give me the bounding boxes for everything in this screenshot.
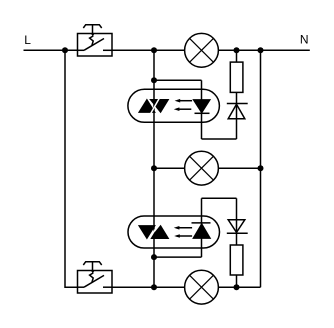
lamp E2 (middle) [185, 151, 219, 185]
E2 circle [185, 151, 219, 185]
resistor R2 [230, 245, 243, 275]
wire left rail (down and to switch S2) [65, 50, 78, 287]
optocoupler U1 (solid state relay, top) [128, 89, 219, 122]
U1 light arrow upper head [175, 99, 181, 103]
switch S1 (top pushbutton switch) [78, 25, 113, 56]
U2 light arrow lower [177, 235, 193, 237]
S2 actuator bar [83, 262, 101, 265]
S1 left fixed contact [78, 49, 85, 51]
wire top rail from S1 to lamp E1 [112, 49, 185, 51]
wire top rail from L to switch S1 [24, 49, 78, 51]
wire triac rail upper segment [153, 50, 155, 80]
wire middle row right [218, 167, 260, 169]
lamp E1 (top) [185, 33, 219, 67]
wire resistor R2 bottom lead [236, 275, 238, 287]
E2 cross stroke 1 [190, 156, 214, 180]
wire U1 LED cathode corner to diode D1 column [202, 138, 237, 140]
U2 LED triangle [193, 224, 210, 239]
U1 stadium outline [128, 89, 219, 122]
U1 LED cathode bar [195, 112, 210, 114]
wire U1 LED anode column [201, 80, 203, 139]
node junction dot middle row left [151, 165, 157, 171]
svg-text:N: N [300, 33, 309, 47]
U1 light arrow upper [177, 100, 192, 102]
optocoupler U2 (solid state relay, bottom) [128, 216, 220, 248]
S1 moving contact [84, 39, 104, 51]
diode D1 triangle [228, 104, 245, 118]
wire triac rail middle segment [153, 168, 155, 257]
S1 enclosure box [78, 34, 113, 57]
S2 right fixed contact [103, 286, 112, 288]
node junction dot top rail at resistor column [234, 47, 240, 53]
E3 cross stroke 2 [190, 275, 214, 299]
diode D1 cathode bar [227, 103, 248, 105]
U2 light arrow upper [176, 227, 192, 229]
wire U2 LED cathode to triac rail [154, 256, 202, 258]
wire diode D2 column [236, 198, 238, 245]
wire U2 LED anode column [201, 198, 203, 257]
wire right rail N column [260, 50, 262, 287]
S2 moving contact [84, 275, 104, 287]
node junction dot bottom rail at triac column [151, 284, 157, 290]
S2 trip zigzag [90, 273, 94, 283]
E2 cross stroke 2 [190, 156, 214, 180]
diode D2 triangle [228, 220, 245, 233]
U2 light arrow upper head [174, 226, 180, 230]
U1 LED triangle [193, 100, 210, 113]
resistor R1 [230, 62, 243, 92]
svg-text:L: L [24, 33, 31, 47]
U2 LED anode bar [192, 222, 211, 224]
wire bottom rail from lamp E3 to right rail [218, 286, 260, 288]
diode D2 cathode bar [227, 232, 248, 234]
U2 light arrow lower head [174, 234, 180, 238]
U1 triac gap slash [150, 98, 159, 114]
wire diode D1 column lower segment [236, 92, 238, 139]
wire U2 top link horizontal [202, 197, 237, 199]
S2 enclosure box [78, 271, 113, 294]
E1 cross stroke 1 [190, 38, 214, 62]
wire top rail from lamp E1 to N [218, 49, 309, 51]
U1 triac triangle down [150, 100, 168, 113]
U2 triac triangle up [150, 226, 168, 239]
E3 cross stroke 1 [190, 275, 214, 299]
U1 triac triangle up [139, 100, 155, 113]
lamp E3 (bottom) [185, 270, 219, 304]
wire U1 LED anode link to triac rail [154, 79, 202, 81]
S2 trip arrowhead [91, 271, 95, 274]
wire resistor R1 top lead [236, 50, 238, 62]
node junction dot bottom rail at resistor column [234, 284, 240, 290]
U1 light arrow lower [176, 108, 191, 110]
wire middle row left [154, 167, 185, 169]
U1 light arrow lower head [174, 107, 180, 111]
E3 circle [185, 270, 219, 304]
wire bottom rail from S2 to lamp E3 [112, 286, 185, 288]
E1 cross stroke 2 [190, 38, 214, 62]
S1 trip arrowhead [91, 34, 95, 37]
node junction dot top rail at triac column [151, 47, 157, 53]
node junction dot triac rail upper [151, 77, 157, 83]
U2 triac gap slash [149, 224, 159, 240]
node junction dot top-left [62, 47, 68, 53]
node junction dot triac rail lower [151, 254, 157, 260]
node junction dot top rail at right rail [258, 47, 264, 53]
S1 actuator stem [92, 25, 94, 34]
S1 actuator bar [83, 25, 101, 28]
node junction dot middle row right [258, 165, 264, 171]
U2 triac triangle down [139, 226, 155, 239]
switch S2 (bottom pushbutton switch) [78, 262, 113, 293]
S2 actuator stem [92, 262, 94, 271]
S2 left fixed contact [78, 286, 85, 288]
S1 right fixed contact [103, 49, 112, 51]
wire triac rail lower segment [153, 257, 155, 287]
U2 stadium outline [128, 216, 220, 248]
E1 circle [185, 33, 219, 67]
wire triac rail second segment [153, 80, 155, 168]
S1 trip zigzag [90, 36, 94, 46]
